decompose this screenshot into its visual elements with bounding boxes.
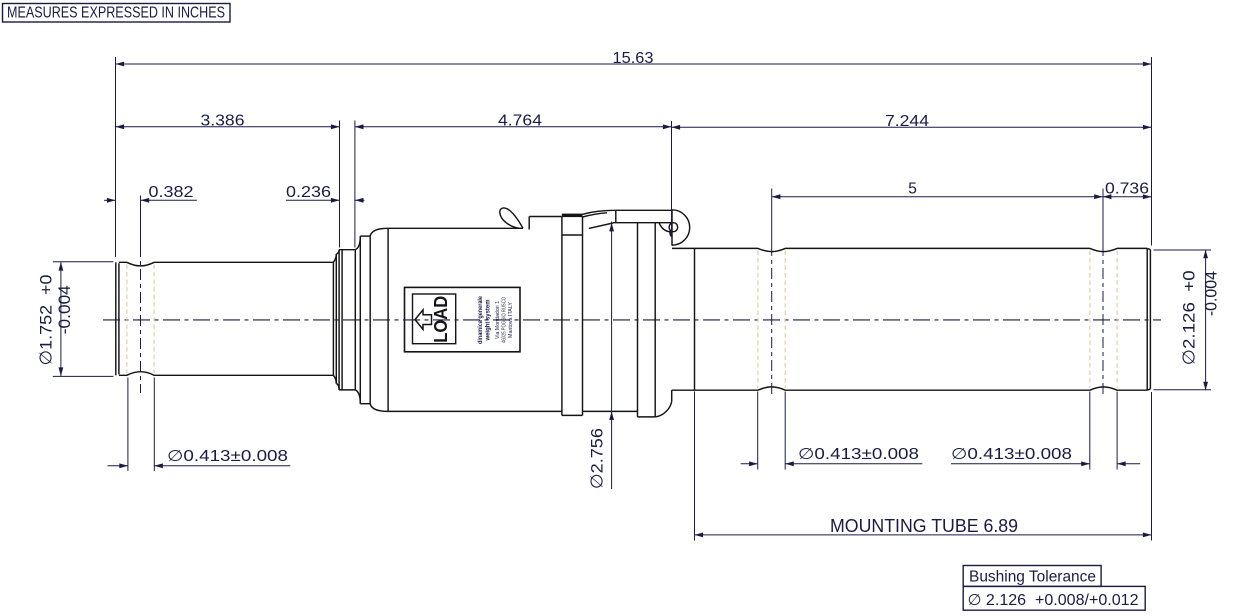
left shaft hole edges bbox=[126, 265, 128, 374]
clamp band top bar (thick) bbox=[562, 214, 583, 218]
ext lines tube hole 2 bbox=[1089, 392, 1091, 470]
taper ring 2 bbox=[359, 236, 361, 404]
body bottom edge bbox=[388, 410, 562, 412]
body left edge line bbox=[387, 228, 389, 411]
sticker inner box bbox=[413, 294, 456, 344]
dimension dia 1.752 (left, rotated) bbox=[37, 262, 74, 376]
dimension dia 2.126 (right, rotated) bbox=[1180, 250, 1221, 391]
ext lines shaft hole bbox=[127, 378, 129, 472]
ext line left shaft face bbox=[115, 57, 117, 257]
dimension MOUNTING TUBE 6.89 bbox=[695, 516, 1152, 537]
main horizontal center line bbox=[103, 319, 1161, 321]
sticker outer border bbox=[405, 287, 521, 351]
cable curve from clamp to bracket bbox=[583, 210, 616, 214]
svg-text:15.63: 15.63 bbox=[613, 50, 654, 67]
cap bottom bbox=[638, 416, 656, 418]
svg-text:LOAD: LOAD bbox=[431, 296, 451, 343]
LOAD sticker on body bbox=[405, 287, 521, 351]
svg-text:0.382: 0.382 bbox=[149, 184, 194, 201]
dimension dia 0.413 left bbox=[108, 448, 291, 468]
extension lines bbox=[53, 57, 1211, 541]
svg-text:4.764: 4.764 bbox=[498, 113, 542, 130]
svg-text:∅2.126 +0: ∅2.126 +0 bbox=[1180, 270, 1199, 365]
ext line tube right face lower bbox=[1151, 392, 1153, 541]
cable horn on body top bbox=[500, 208, 523, 228]
dimension 0.382 bbox=[104, 184, 197, 203]
svg-text:-0.004: -0.004 bbox=[55, 285, 74, 334]
svg-text:3.386: 3.386 bbox=[201, 113, 245, 130]
chamfer to ring 2 bbox=[355, 236, 360, 250]
dimension 5 bbox=[772, 181, 1103, 199]
horizontal ext lines tube diameter bbox=[1154, 249, 1212, 251]
bracket left end bbox=[615, 210, 617, 222]
clamp platform bbox=[528, 217, 530, 230]
cable lower slant line bbox=[589, 223, 613, 228]
taper ring chamfer lines bbox=[333, 254, 336, 262]
svg-text:MEASURES EXPRESSED IN INCHES: MEASURES EXPRESSED IN INCHES bbox=[7, 5, 225, 22]
cable lower curve bbox=[583, 213, 608, 217]
dimension 15.63 bbox=[116, 50, 1152, 67]
ext line mounting tube left bbox=[694, 392, 696, 541]
ext line body left bbox=[354, 121, 356, 248]
svg-text:7.244: 7.244 bbox=[885, 113, 929, 130]
left shaft hole center line bbox=[140, 196, 142, 247]
hidden hole edges (dashed tan) bbox=[127, 251, 1117, 389]
svg-text:∅0.413±0.008: ∅0.413±0.008 bbox=[951, 446, 1072, 463]
svg-text:∅ 2.126 +0.008/+0.012: ∅ 2.126 +0.008/+0.012 bbox=[968, 592, 1139, 609]
shaft bottom edge with hole notch bbox=[119, 372, 334, 376]
cap stem right bbox=[654, 223, 656, 417]
shaft left face bbox=[115, 262, 117, 375]
ext line ring1 left bbox=[339, 121, 341, 248]
clamp band inner line bbox=[562, 234, 583, 236]
svg-text:∅0.413±0.008: ∅0.413±0.008 bbox=[167, 448, 288, 465]
dimension 0.236 bbox=[286, 184, 365, 203]
mounting tube top edge with hole notches bbox=[672, 248, 1147, 251]
tube hole 1 center line bbox=[771, 189, 773, 246]
dimension 4.764 bbox=[355, 113, 672, 130]
dimension dia 0.413 right bbox=[951, 446, 1140, 466]
svg-text:∅1.752 +0: ∅1.752 +0 bbox=[37, 275, 56, 366]
horizontal ext lines shaft diameter bbox=[53, 261, 114, 263]
taper ring 1 bbox=[338, 250, 340, 390]
svg-text:MOUNTING TUBE 6.89: MOUNTING TUBE 6.89 bbox=[830, 516, 1018, 536]
ext lines tube hole 1 bbox=[757, 392, 759, 470]
svg-text:Bushing Tolerance: Bushing Tolerance bbox=[969, 569, 1096, 586]
mounting tube bottom edge with hole notches bbox=[672, 387, 1147, 390]
dimension 3.386 bbox=[116, 113, 340, 130]
body top edge bbox=[388, 227, 523, 229]
shaft top edge with hole notch bbox=[119, 262, 334, 266]
svg-text:5: 5 bbox=[908, 181, 917, 198]
ear semicircle bbox=[672, 210, 690, 245]
note box: MEASURES EXPRESSED IN INCHES bbox=[3, 4, 231, 23]
svg-text:∅0.413±0.008: ∅0.413±0.008 bbox=[798, 446, 919, 463]
tube right face bbox=[1146, 248, 1148, 390]
ext line body/tube boundary bbox=[671, 121, 673, 237]
cap stem left bbox=[637, 223, 639, 417]
left shaft outline bbox=[116, 208, 1151, 417]
svg-text:0.736: 0.736 bbox=[1105, 181, 1149, 198]
tube hole 2 edges bbox=[1089, 251, 1091, 389]
bracket top edge bbox=[616, 209, 672, 211]
tube hole 1 edges bbox=[757, 251, 759, 389]
dimension dia 2.756 (rotated) bbox=[588, 222, 614, 490]
cap right edge top bbox=[671, 210, 673, 245]
inner cable hook bbox=[659, 223, 670, 232]
svg-text:∅2.756: ∅2.756 bbox=[588, 428, 607, 489]
bracket bottom edge bbox=[613, 222, 672, 224]
dimension 0.736 bbox=[1103, 181, 1152, 199]
ext line tube right face upper bbox=[1151, 57, 1153, 246]
tube hole 2 center line bbox=[1102, 189, 1104, 246]
cap bottom fillet bbox=[655, 402, 672, 417]
dimension dia 0.413 middle bbox=[741, 446, 923, 466]
tube left face line bbox=[694, 248, 696, 390]
shaft end face bbox=[332, 262, 334, 375]
clamp band bottom bbox=[562, 414, 583, 416]
LOAD arrow (hollow, pointing left) bbox=[415, 310, 432, 330]
svg-text:-0.004: -0.004 bbox=[1201, 271, 1220, 316]
bushing tolerance note boxes bbox=[963, 566, 1145, 611]
fillet to body bbox=[370, 228, 388, 236]
clamp band sides bbox=[561, 217, 563, 415]
svg-text:0.236: 0.236 bbox=[286, 184, 331, 201]
dimension 7.244 bbox=[672, 113, 1152, 130]
